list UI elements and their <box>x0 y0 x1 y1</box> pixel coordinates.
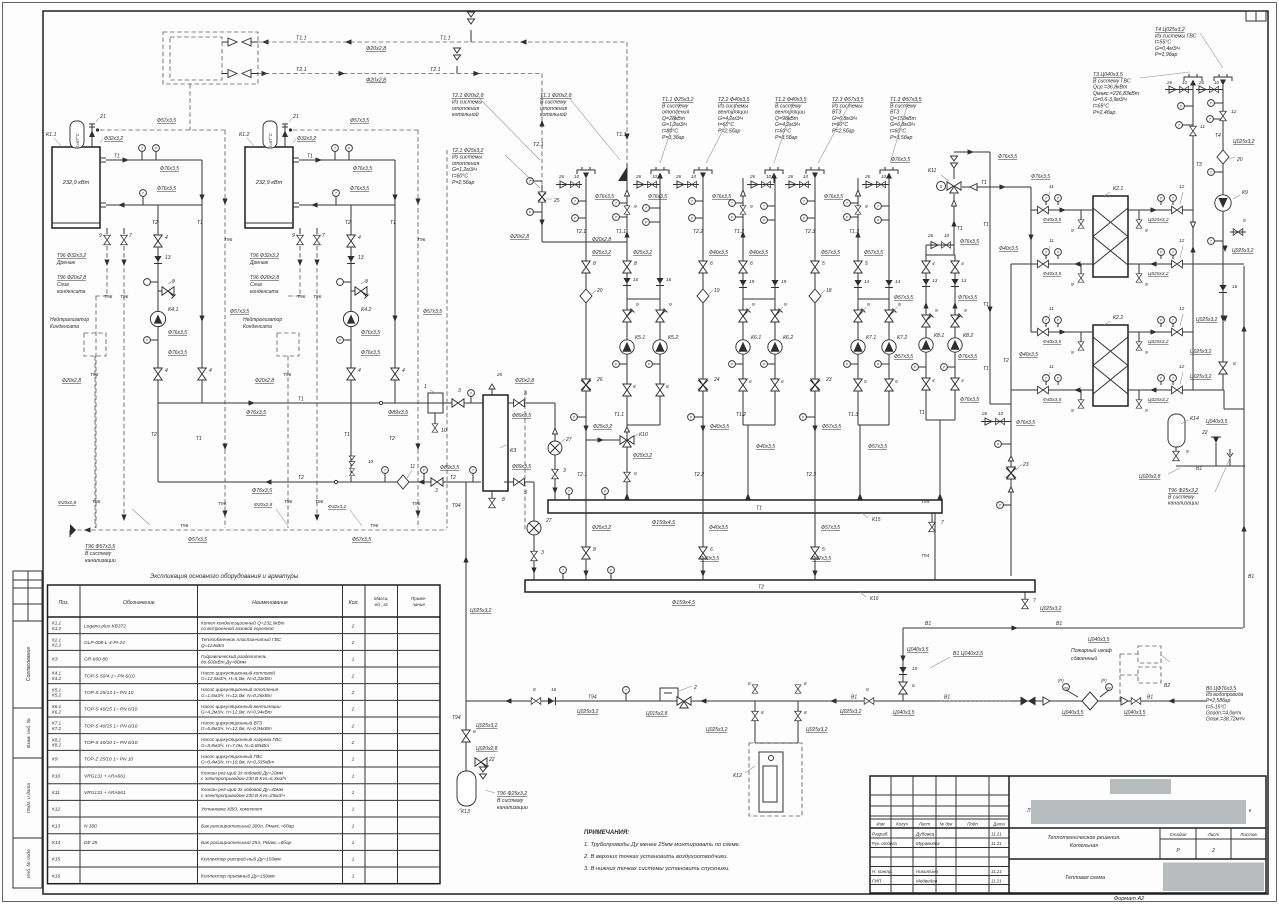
svg-text:1: 1 <box>352 773 355 779</box>
svg-text:Т1.1 Ф20х2,8: Т1.1 Ф20х2,8 <box>540 93 572 99</box>
svg-text:t=60°C: t=60°C <box>890 129 906 135</box>
svg-text:К1.2: К1.2 <box>52 626 62 631</box>
svg-text:Р=2,58бар: Р=2,58бар <box>1206 698 1231 704</box>
svg-text:чание: чание <box>412 602 425 607</box>
svg-text:Разраб.: Разраб. <box>872 832 889 837</box>
svg-text:Т1.3: Т1.3 <box>849 229 859 235</box>
svg-text:Ф57х3,5: Ф57х3,5 <box>821 525 840 531</box>
svg-text:Ф32х3,2: Ф32х3,2 <box>297 136 316 142</box>
svg-text:Ф40х3,5: Ф40х3,5 <box>749 250 768 256</box>
svg-text:Клапан рег-щий 3х ходовой Ду=2: Клапан рег-щий 3х ходовой Ду=20мм <box>201 770 284 776</box>
svg-text:Т1.1: Т1.1 <box>440 36 451 42</box>
svg-text:9: 9 <box>784 302 787 308</box>
svg-text:TOP-S 25/13 1~ PN 10: TOP-S 25/13 1~ PN 10 <box>84 690 134 696</box>
svg-text:Слив: Слив <box>57 282 69 288</box>
svg-text:21: 21 <box>99 114 106 120</box>
svg-text:Муравьёва: Муравьёва <box>916 841 940 846</box>
svg-text:12: 12 <box>1179 364 1185 370</box>
svg-text:Ф76х3,5: Ф76х3,5 <box>252 488 272 494</box>
svg-text:t=5-15°C: t=5-15°C <box>1206 704 1226 710</box>
svg-text:Т2: Т2 <box>1003 358 1009 364</box>
svg-text:2: 2 <box>351 723 355 729</box>
svg-text:5: 5 <box>865 261 868 267</box>
svg-text:Р=3,5бар: Р=3,5бар <box>890 135 913 141</box>
svg-text:Ц025х3,2: Ц025х3,2 <box>1148 271 1169 277</box>
svg-text:TOP-Z 25/10 1~ PN 10: TOP-Z 25/10 1~ PN 10 <box>84 757 133 763</box>
svg-text:t=60°C: t=60°C <box>452 174 468 180</box>
svg-text:232,9 кВт: 232,9 кВт <box>255 180 283 186</box>
svg-text:Ц020х2,8: Ц020х2,8 <box>476 746 498 752</box>
svg-text:Т96: Т96 <box>104 294 113 300</box>
svg-text:2: 2 <box>351 740 355 746</box>
svg-text:8: 8 <box>633 384 636 390</box>
svg-text:Экспликация основного оборудов: Экспликация основного оборудования и арм… <box>150 573 299 580</box>
svg-text:Ц040х3,5: Ц040х3,5 <box>1124 710 1146 716</box>
svg-text:Тепловая схема: Тепловая схема <box>1065 875 1105 881</box>
svg-text:(Р): (Р) <box>1101 678 1107 683</box>
svg-text:Т96 Ф25х3,2: Т96 Ф25х3,2 <box>497 791 527 797</box>
svg-text:Ц040х3,5: Ц040х3,5 <box>1088 637 1110 643</box>
svg-text:К6.1: К6.1 <box>751 335 761 341</box>
svg-text:G=4,2м3/ч: G=4,2м3/ч <box>718 116 743 122</box>
svg-text:Ф20х2,8: Ф20х2,8 <box>366 46 386 52</box>
svg-text:канализации: канализации <box>1168 501 1199 507</box>
svg-text:Ф76х3,5: Ф76х3,5 <box>960 397 979 403</box>
svg-text:Котел конденсационный Q=232,9к: Котел конденсационный Q=232,9кВт <box>201 620 285 626</box>
svg-text:Т96: Т96 <box>370 523 379 529</box>
svg-text:t=60°C: t=60°C <box>718 122 734 128</box>
svg-text:ПРИМЕЧАНИЯ:: ПРИМЕЧАНИЯ: <box>584 830 629 836</box>
svg-text:Т2.3: Т2.3 <box>805 229 815 235</box>
svg-text:G=1,2м3/ч: G=1,2м3/ч <box>452 167 477 173</box>
svg-text:Ф40х3,5: Ф40х3,5 <box>709 525 728 531</box>
svg-text:Ц025х3,2: Ц025х3,2 <box>1148 339 1169 345</box>
svg-text:Ф57х3,5: Ф57х3,5 <box>230 309 249 315</box>
svg-text:G=0,4м3/ч, Н=10,0м, N=0,335кВт: G=0,4м3/ч, Н=10,0м, N=0,335кВт <box>201 759 274 764</box>
svg-text:Т1: Т1 <box>390 220 396 226</box>
svg-text:Котельная: Котельная <box>1070 843 1098 849</box>
svg-text:1: 1 <box>352 790 355 796</box>
svg-text:К12: К12 <box>52 807 60 813</box>
svg-text:9: 9 <box>752 302 755 308</box>
svg-text:11.21: 11.21 <box>991 832 1002 837</box>
svg-text:TOP-S 50/4 1~ PN 6/10: TOP-S 50/4 1~ PN 6/10 <box>84 673 135 679</box>
svg-text:Насос циркуляционный отопления: Насос циркуляционный отопления <box>201 686 279 692</box>
svg-text:Т96: Т96 <box>417 237 426 243</box>
svg-text:S: S <box>940 184 943 189</box>
svg-text:Ф76х3,5: Ф76х3,5 <box>350 186 369 192</box>
svg-text:Ф89х3,5: Ф89х3,5 <box>512 413 531 419</box>
svg-text:Ф89х3,5: Ф89х3,5 <box>440 465 459 471</box>
svg-text:Т1.2 Ф40х3,5: Т1.2 Ф40х3,5 <box>775 97 807 103</box>
svg-text:Установка ХВО, комплект: Установка ХВО, комплект <box>201 807 262 813</box>
svg-text:t=65°C: t=65°C <box>1093 104 1109 110</box>
svg-text:26: 26 <box>596 377 603 383</box>
svg-text:Т2.3: Т2.3 <box>806 472 816 478</box>
svg-text:19: 19 <box>749 279 755 285</box>
svg-text:Ц025х3,2: Ц025х3,2 <box>1190 374 1212 380</box>
svg-text:26: 26 <box>635 174 642 179</box>
svg-text:t=80°C: t=80°C <box>662 129 678 135</box>
svg-text:G=4,2м3/ч: G=4,2м3/ч <box>775 122 800 128</box>
svg-text:9: 9 <box>1071 350 1074 356</box>
svg-text:К5.1: К5.1 <box>635 335 645 341</box>
svg-text:Кол.: Кол. <box>349 600 359 606</box>
svg-text:Из водопровода: Из водопровода <box>1206 692 1243 698</box>
svg-text:9: 9 <box>935 308 938 314</box>
svg-text:Т1.2: Т1.2 <box>736 412 746 418</box>
svg-text:Т2.2 Ф40х3,5: Т2.2 Ф40х3,5 <box>718 97 750 103</box>
svg-text:6: 6 <box>781 379 784 385</box>
svg-text:В систему: В систему <box>497 798 524 804</box>
svg-text:6: 6 <box>710 547 713 553</box>
svg-text:Ф76х3,5: Ф76х3,5 <box>1016 420 1035 426</box>
svg-text:Т1: Т1 <box>981 180 987 186</box>
svg-text:12: 12 <box>1179 238 1185 244</box>
svg-text:TOP-S 40/10 1~ PN 6/10: TOP-S 40/10 1~ PN 6/10 <box>84 740 138 746</box>
svg-text:Т2.2: Т2.2 <box>694 472 704 478</box>
svg-text:Стадия: Стадия <box>1170 832 1187 837</box>
svg-text:Т4: Т4 <box>1215 133 1221 139</box>
svg-text:К15: К15 <box>872 517 881 523</box>
svg-text:Т1.2: Т1.2 <box>734 229 744 235</box>
svg-text:Ф76х3,5: Ф76х3,5 <box>246 410 266 416</box>
svg-text:20: 20 <box>596 288 603 294</box>
svg-text:t=67°C: t=67°C <box>268 132 273 146</box>
svg-text:Ф25х3,2: Ф25х3,2 <box>633 250 652 256</box>
svg-text:VRG131 + ARA661: VRG131 + ARA661 <box>84 773 126 779</box>
svg-text:Т1: Т1 <box>983 302 989 308</box>
svg-text:1: 1 <box>352 873 355 879</box>
svg-text:Дубовец: Дубовец <box>915 832 935 837</box>
svg-text:ПР: ПР <box>1064 686 1068 690</box>
svg-text:5: 5 <box>822 547 825 553</box>
svg-text:1. Трубопроводы Ду менее 25мм: 1. Трубопроводы Ду менее 25мм монтироват… <box>584 842 740 848</box>
svg-text:Т96: Т96 <box>92 499 101 505</box>
svg-text:Дренаж: Дренаж <box>56 260 76 266</box>
svg-text:9: 9 <box>1243 218 1246 224</box>
svg-text:Т96 Ф32х3,2: Т96 Ф32х3,2 <box>250 253 279 259</box>
svg-text:В систему: В систему <box>85 551 112 557</box>
svg-text:1: 1 <box>352 757 355 763</box>
svg-text:Т94: Т94 <box>921 553 930 559</box>
svg-text:Ц040х3,5: Ц040х3,5 <box>1206 419 1228 425</box>
svg-text:Ф20х2,8: Ф20х2,8 <box>510 234 529 240</box>
svg-text:11: 11 <box>1049 306 1054 312</box>
svg-text:Слив: Слив <box>250 282 262 288</box>
svg-text:Gподп.=4,0м³/ч: Gподп.=4,0м³/ч <box>1206 710 1242 716</box>
svg-text:Насос циркуляционный ГВС: Насос циркуляционный ГВС <box>201 753 263 759</box>
svg-text:16: 16 <box>666 277 672 283</box>
svg-text:9: 9 <box>1145 408 1148 414</box>
svg-text:3: 3 <box>524 391 527 397</box>
svg-text:котельной: котельной <box>540 111 567 118</box>
svg-text:8: 8 <box>866 687 869 693</box>
svg-text:В систему: В систему <box>890 103 917 109</box>
svg-text:Qср.=36,8кВт: Qср.=36,8кВт <box>1093 85 1128 91</box>
svg-text:3: 3 <box>458 388 461 394</box>
svg-text:К12: К12 <box>733 773 742 779</box>
svg-text:сдвоенный: сдвоенный <box>1071 655 1097 662</box>
svg-text:2: 2 <box>351 707 355 713</box>
svg-text:К5.2: К5.2 <box>668 335 678 341</box>
svg-text:26: 26 <box>864 174 871 179</box>
svg-text:К14: К14 <box>1190 416 1199 422</box>
svg-text:Ф76х3,5: Ф76х3,5 <box>958 295 977 301</box>
svg-text:Ф40х3,5: Ф40х3,5 <box>700 556 719 562</box>
svg-text:23: 23 <box>825 377 832 383</box>
svg-text:Ф76х3,5: Ф76х3,5 <box>712 194 731 200</box>
svg-text:Ф20х2,8: Ф20х2,8 <box>58 500 77 506</box>
svg-text:Бак расширительный 300л, Рмакс: Бак расширительный 300л, Рмакс.=6бар <box>201 822 294 829</box>
svg-text:К14: К14 <box>52 840 60 846</box>
svg-text:Т96: Т96 <box>218 501 227 507</box>
svg-text:К8.2: К8.2 <box>52 743 62 748</box>
svg-text:котельной: котельной <box>452 111 479 118</box>
svg-text:Ф20х2,8: Ф20х2,8 <box>515 378 534 384</box>
svg-text:К5.2: К5.2 <box>52 693 62 698</box>
svg-text:9: 9 <box>1071 228 1074 234</box>
svg-text:8: 8 <box>502 497 505 503</box>
svg-text:Ц025х3,2: Ц025х3,2 <box>1190 349 1212 355</box>
svg-text:Ф32х3,2: Ф32х3,2 <box>328 504 347 510</box>
svg-text:11: 11 <box>1049 184 1054 190</box>
svg-text:К2.2: К2.2 <box>52 643 62 648</box>
svg-text:22: 22 <box>488 757 495 763</box>
svg-text:Колуч: Колуч <box>896 822 909 827</box>
svg-text:Н. контр.: Н. контр. <box>872 869 893 874</box>
svg-text:Т1.1: Т1.1 <box>296 36 307 42</box>
svg-text:8: 8 <box>533 687 536 693</box>
svg-text:Т1.1: Т1.1 <box>614 412 624 418</box>
svg-text:4: 4 <box>358 235 361 241</box>
svg-text:Т1.3: Т1.3 <box>848 412 858 418</box>
svg-text:ВТЗ: ВТЗ <box>832 110 842 116</box>
svg-text:3: 3 <box>563 468 566 474</box>
svg-text:Т2.1: Т2.1 <box>296 67 307 73</box>
svg-text:Взам. инб. №: Взам. инб. № <box>26 718 32 748</box>
svg-text:К3: К3 <box>510 448 517 454</box>
svg-text:26: 26 <box>749 174 756 179</box>
svg-text:Т2: Т2 <box>450 475 456 481</box>
svg-text:G=6,8м3/ч: G=6,8м3/ч <box>832 116 857 122</box>
svg-text:Т2.1 Ф20х2,8: Т2.1 Ф20х2,8 <box>452 93 484 99</box>
svg-text:Ф76х3,5: Ф76х3,5 <box>157 186 176 192</box>
svg-text:DE 25: DE 25 <box>84 840 98 846</box>
svg-text:№ док: № док <box>940 822 954 827</box>
svg-text:К8.2: К8.2 <box>963 333 973 339</box>
svg-text:Ф25х3,2: Ф25х3,2 <box>593 424 612 430</box>
svg-text:Q=98кВт: Q=98кВт <box>775 116 799 122</box>
svg-text:Дата: Дата <box>992 822 1005 827</box>
svg-text:16: 16 <box>551 687 557 693</box>
svg-text:Подп. и дата: Подп. и дата <box>26 783 32 813</box>
svg-text:Ф76х3,5: Ф76х3,5 <box>168 350 187 356</box>
svg-text:Т94: Т94 <box>452 503 461 509</box>
svg-text:4: 4 <box>209 368 212 374</box>
svg-text:9: 9 <box>1145 350 1148 356</box>
svg-text:2: 2 <box>351 623 355 629</box>
svg-text:К6.2: К6.2 <box>783 335 793 341</box>
svg-text:9: 9 <box>1186 449 1189 455</box>
svg-text:В1 Ц040х3,5: В1 Ц040х3,5 <box>953 651 983 657</box>
svg-text:Ц025х3,2: Ц025х3,2 <box>806 727 828 733</box>
svg-text:Ф76х3,5: Ф76х3,5 <box>824 194 843 200</box>
svg-text:9: 9 <box>99 233 102 239</box>
svg-text:2: 2 <box>1211 848 1215 854</box>
svg-text:9: 9 <box>750 204 753 210</box>
svg-text:В1: В1 <box>1248 574 1254 580</box>
svg-text:Ф57х3,5: Ф57х3,5 <box>350 118 369 124</box>
svg-text:TOP-S 40/15 1~ PN 6/10: TOP-S 40/15 1~ PN 6/10 <box>84 707 138 713</box>
svg-text:10: 10 <box>368 459 374 464</box>
svg-text:Т2: Т2 <box>389 436 395 442</box>
svg-text:4: 4 <box>961 261 964 267</box>
svg-text:Ц025х3,2: Ц025х3,2 <box>1233 139 1255 145</box>
svg-text:t=60°C: t=60°C <box>832 122 848 128</box>
svg-text:TOP-S 40/15 1~ PN 6/10: TOP-S 40/15 1~ PN 6/10 <box>84 723 138 729</box>
svg-text:8: 8 <box>804 710 807 716</box>
svg-text:26: 26 <box>787 174 794 179</box>
svg-text:14: 14 <box>864 279 870 285</box>
svg-text:GLP-008-L-4-PI-24: GLP-008-L-4-PI-24 <box>84 640 125 646</box>
svg-text:Ф57х3,5: Ф57х3,5 <box>352 537 371 543</box>
svg-text:10: 10 <box>944 233 950 238</box>
svg-text:13: 13 <box>358 255 364 261</box>
svg-text:Ф25х3,2: Ф25х3,2 <box>592 250 611 256</box>
svg-text:12: 12 <box>1179 184 1185 190</box>
svg-text:с электроприводом 230 В Kvs=25: с электроприводом 230 В Kvs=25м3/ч <box>201 793 285 798</box>
svg-text:Ц020х2,8: Ц020х2,8 <box>1139 474 1161 480</box>
svg-text:9: 9 <box>1145 228 1148 234</box>
svg-text:8: 8 <box>593 261 596 267</box>
svg-text:Нейтрализатор: Нейтрализатор <box>50 316 89 323</box>
svg-text:Ф57х3,5: Ф57х3,5 <box>894 295 913 301</box>
svg-text:К4.2: К4.2 <box>52 676 62 681</box>
svg-text:Т96: Т96 <box>224 237 233 243</box>
svg-text:7: 7 <box>322 233 325 239</box>
svg-text:Наименование: Наименование <box>252 600 288 606</box>
svg-text:9: 9 <box>867 302 870 308</box>
svg-text:Ц025х3,2: Ц025х3,2 <box>1148 217 1169 223</box>
svg-text:3: 3 <box>541 550 544 556</box>
svg-text:26: 26 <box>927 233 934 238</box>
svg-text:Gпож.=38,72м³/ч: Gпож.=38,72м³/ч <box>1206 717 1245 723</box>
svg-text:G=1,6м3/ч, Н=12,0м, N=0,26кВт: G=1,6м3/ч, Н=12,0м, N=0,26кВт <box>201 693 272 698</box>
svg-text:Т96: Т96 <box>180 523 189 529</box>
svg-text:Коллектор приемный Ду=150мм: Коллектор приемный Ду=150мм <box>201 872 275 879</box>
svg-text:К3: К3 <box>52 657 58 663</box>
svg-text:14: 14 <box>895 279 901 285</box>
svg-text:Ц025х3,2: Ц025х3,2 <box>577 709 599 715</box>
svg-text:Ф89х3,5: Ф89х3,5 <box>512 464 531 470</box>
svg-text:Ц040х3,5: Ц040х3,5 <box>1062 710 1084 716</box>
svg-text:1: 1 <box>352 823 355 829</box>
svg-text:2. В верхних точках установить: 2. В верхних точках установить воздухоот… <box>583 854 728 860</box>
svg-text:В систему ГВС: В систему ГВС <box>1093 78 1131 84</box>
svg-text:Ф159х4,5: Ф159х4,5 <box>652 520 675 526</box>
svg-text:8: 8 <box>634 471 637 477</box>
svg-text:t=67°C: t=67°C <box>75 132 80 146</box>
svg-text:Ф76х3,5: Ф76х3,5 <box>1031 174 1050 180</box>
svg-text:Ц025х3,2: Ц025х3,2 <box>1040 606 1062 612</box>
svg-text:В систему: В систему <box>662 103 689 109</box>
svg-text:Ф57х3,5: Ф57х3,5 <box>894 354 913 360</box>
svg-text:9: 9 <box>636 302 639 308</box>
svg-text:8: 8 <box>761 710 764 716</box>
svg-text:Р=2,5бар: Р=2,5бар <box>452 180 475 186</box>
svg-text:К8.1: К8.1 <box>934 333 944 339</box>
svg-text:Р=1,9бар: Р=1,9бар <box>1155 52 1178 58</box>
svg-text:К15: К15 <box>52 857 60 863</box>
svg-text:Насос циркуляционный вентиляци: Насос циркуляционный вентиляции <box>201 703 281 709</box>
svg-text:Из системы: Из системы <box>452 154 482 160</box>
svg-text:Ф20х2,8: Ф20х2,8 <box>255 378 274 384</box>
svg-text:1: 1 <box>424 384 427 390</box>
svg-text:Т2: Т2 <box>298 475 304 481</box>
svg-text:Т96: Т96 <box>412 501 421 507</box>
svg-text:отопления: отопления <box>452 106 479 112</box>
svg-text:Ф76х3,5: Ф76х3,5 <box>168 330 187 336</box>
svg-text:Ф76х3,5: Ф76х3,5 <box>160 166 179 172</box>
svg-text:Т2: Т2 <box>152 220 158 226</box>
svg-text:Т96 Ф57х3,5: Т96 Ф57х3,5 <box>85 544 115 550</box>
svg-text:Т1: Т1 <box>983 222 989 228</box>
svg-text:Т1.1: Т1.1 <box>616 229 626 235</box>
svg-text:6: 6 <box>750 261 753 267</box>
svg-text:Т2.1: Т2.1 <box>577 472 587 478</box>
svg-text:отопления: отопления <box>662 110 689 116</box>
svg-text:1: 1 <box>352 857 355 863</box>
svg-text:9: 9 <box>898 302 901 308</box>
svg-text:13: 13 <box>165 255 171 261</box>
svg-text:К7.2: К7.2 <box>52 726 62 731</box>
svg-text:19: 19 <box>781 279 787 285</box>
svg-text:Т2: Т2 <box>345 220 351 226</box>
svg-text:6: 6 <box>912 683 915 689</box>
svg-text:10: 10 <box>441 428 447 434</box>
svg-text:Т1.3 Ф57х3,5: Т1.3 Ф57х3,5 <box>890 97 922 103</box>
svg-text:26: 26 <box>1166 80 1172 85</box>
svg-text:26: 26 <box>1198 80 1204 85</box>
svg-text:В систему: В систему <box>540 99 567 105</box>
svg-text:19: 19 <box>714 288 720 294</box>
svg-text:VRG131 + ARA661: VRG131 + ARA661 <box>84 790 126 796</box>
svg-text:Т1: Т1 <box>298 397 304 403</box>
svg-text:Из системы ГВС: Из системы ГВС <box>1155 33 1197 39</box>
svg-text:Т2: Т2 <box>758 585 764 591</box>
svg-text:Ф20х2,8: Ф20х2,8 <box>366 78 386 84</box>
svg-text:Ф40х3,5: Ф40х3,5 <box>1043 339 1062 345</box>
svg-text:2: 2 <box>351 640 355 646</box>
svg-text:Т2.1: Т2.1 <box>430 67 441 73</box>
svg-text:Конденсата: Конденсата <box>50 324 79 330</box>
svg-text:с электроприводом 230 В Kvs=6,: с электроприводом 230 В Kvs=6,3м3/ч <box>201 776 287 781</box>
svg-text:В1: В1 <box>1056 621 1062 627</box>
svg-text:10: 10 <box>803 174 809 179</box>
svg-text:4: 4 <box>358 368 361 374</box>
svg-text:Ц040х3,5: Ц040х3,5 <box>907 647 929 653</box>
svg-text:GR-600-80: GR-600-80 <box>84 657 108 663</box>
svg-text:Ф76х3,5: Ф76х3,5 <box>958 354 977 360</box>
svg-text:G=4,2м3/ч, Н=12,0м, N=0,94кВт: G=4,2м3/ч, Н=12,0м, N=0,94кВт <box>201 709 272 714</box>
svg-text:Клапан рег-щий 3х ходовой Ду=4: Клапан рег-щий 3х ходовой Ду=40мм <box>201 786 284 792</box>
svg-text:27: 27 <box>545 518 552 524</box>
svg-text:Ф40х3,5: Ф40х3,5 <box>1043 397 1062 403</box>
svg-text:Теплотехническое решения.: Теплотехническое решения. <box>1047 835 1120 841</box>
svg-text:К10: К10 <box>52 773 60 779</box>
svg-text:Т1: Т1 <box>307 154 313 160</box>
